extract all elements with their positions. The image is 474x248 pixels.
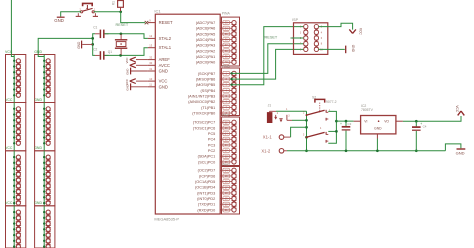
wire S1 to GND bbox=[61, 12, 81, 17]
capacitor C2 bbox=[93, 47, 108, 59]
supply arrow VCC at AVCC bbox=[130, 63, 148, 68]
connector JPV2 pins bbox=[16, 107, 21, 146]
switch S2 bracket and labels bbox=[312, 95, 337, 112]
svg-text:14: 14 bbox=[225, 168, 228, 172]
svg-text:VCC: VCC bbox=[358, 28, 362, 35]
svg-text:XTAL1: XTAL1 bbox=[159, 45, 172, 50]
wire regulator output to VCC bbox=[403, 116, 461, 123]
svg-text:/RESET: /RESET bbox=[264, 35, 278, 39]
connector X1-2 terminal bbox=[261, 149, 287, 154]
IC1 PINA pin names bbox=[196, 21, 216, 65]
svg-text:(ADC4)PA4: (ADC4)PA4 bbox=[196, 38, 216, 42]
svg-text:(AIN0/OC0)PB2: (AIN0/OC0)PB2 bbox=[188, 100, 215, 104]
wire crystal bottom to XTAL1 bbox=[105, 48, 148, 57]
svg-text:(T1)PB1: (T1)PB1 bbox=[201, 106, 215, 110]
connector JPG3 header body bbox=[35, 151, 55, 206]
svg-text:25: 25 bbox=[225, 137, 228, 141]
svg-text:27: 27 bbox=[225, 149, 228, 153]
ground symbol under S1 bbox=[54, 17, 64, 23]
svg-text:(MISO)PB6: (MISO)PB6 bbox=[196, 77, 215, 81]
supply arrow VCC at ISP bbox=[349, 28, 362, 35]
connector PINC header body bbox=[222, 113, 240, 165]
IC1 PINB pin names bbox=[188, 72, 215, 116]
wire JPG bus segment 3 bbox=[43, 151, 45, 206]
svg-text:XTAL2: XTAL2 bbox=[159, 36, 172, 41]
svg-text:GND: GND bbox=[159, 69, 168, 74]
svg-text:IC1: IC1 bbox=[154, 9, 161, 14]
connector JPV1 pins bbox=[16, 59, 21, 98]
svg-text:23: 23 bbox=[225, 126, 228, 130]
node /RESET net label and wire to ISP pin5 bbox=[264, 35, 304, 39]
svg-text:15: 15 bbox=[225, 174, 228, 178]
connector JPG2 pins bbox=[46, 107, 51, 146]
supply arrow VCC at IC1 pin 10 bbox=[125, 79, 148, 85]
svg-text:VCC: VCC bbox=[5, 201, 13, 205]
svg-text:(ADC7)PA7: (ADC7)PA7 bbox=[196, 21, 216, 25]
svg-text:GND: GND bbox=[54, 18, 64, 23]
wire capacitor ground link bbox=[91, 34, 95, 56]
wire J1 pin1 to switch input bus bbox=[276, 110, 307, 112]
wire JPV bus segment 2 bbox=[13, 103, 15, 151]
svg-text:GND: GND bbox=[34, 201, 42, 205]
svg-text:26: 26 bbox=[225, 143, 228, 147]
switch S2 pole A bbox=[303, 110, 331, 121]
connector JPV2 header body bbox=[6, 103, 26, 151]
svg-text:GND: GND bbox=[351, 45, 355, 53]
ground symbol at IC1 pin 31 bbox=[126, 68, 148, 75]
svg-text:(ADC2)PA2: (ADC2)PA2 bbox=[196, 49, 216, 53]
svg-text:S2: S2 bbox=[312, 95, 316, 99]
connector PIND header body bbox=[222, 163, 240, 214]
svg-text:PINC: PINC bbox=[222, 113, 231, 117]
svg-text:(ADC0)PA0: (ADC0)PA0 bbox=[196, 61, 216, 65]
svg-text:35: 35 bbox=[225, 32, 228, 36]
svg-text:GND: GND bbox=[77, 41, 81, 49]
wire SCK PB7 to ISP pin7 bbox=[230, 44, 303, 75]
IC1 PIND pin names bbox=[195, 169, 215, 213]
connector JPG3 pins bbox=[46, 155, 51, 205]
ground symbol at ISP bbox=[346, 45, 355, 53]
connector ISP pins bbox=[300, 24, 323, 51]
svg-text:22: 22 bbox=[225, 120, 228, 124]
supply arrow VCC at AREF bbox=[125, 57, 148, 63]
svg-text:VI: VI bbox=[364, 120, 367, 124]
svg-text:(AIN1/INT2)PB3: (AIN1/INT2)PB3 bbox=[188, 94, 215, 98]
wire S2 throws common loop bbox=[328, 111, 337, 143]
svg-text:VO: VO bbox=[384, 120, 389, 124]
connector JPV4 header body bbox=[6, 206, 26, 248]
svg-text:17: 17 bbox=[225, 185, 228, 189]
svg-text:(TOSC1)PC6: (TOSC1)PC6 bbox=[193, 126, 216, 130]
svg-text:PINA: PINA bbox=[222, 12, 231, 16]
wire ISP pin10 to GND bbox=[319, 48, 345, 50]
svg-text:MEGA8535-P: MEGA8535-P bbox=[154, 216, 179, 221]
svg-text:+: + bbox=[340, 122, 342, 126]
wire ISP pin2 to VCC bbox=[319, 23, 353, 29]
wire ground rail bbox=[287, 149, 445, 152]
svg-text:RESET: RESET bbox=[159, 20, 173, 25]
svg-text:C3: C3 bbox=[348, 122, 352, 126]
capacitor C3 electrolytic bbox=[340, 120, 352, 151]
svg-text:7805TV: 7805TV bbox=[361, 108, 374, 112]
svg-text:C4: C4 bbox=[423, 124, 427, 128]
wire JPV bus segment 4 bbox=[13, 206, 15, 248]
svg-text:R1: R1 bbox=[112, 1, 116, 5]
svg-text:(TOSC2)PC7: (TOSC2)PC7 bbox=[193, 121, 216, 125]
svg-text:(SS)PB4: (SS)PB4 bbox=[201, 89, 216, 93]
svg-text:(ADC6)PA6: (ADC6)PA6 bbox=[196, 27, 216, 31]
wire IC2 ground pin to rail bbox=[376, 139, 378, 151]
capacitor C1 bbox=[93, 25, 108, 38]
svg-text:VCC: VCC bbox=[125, 79, 129, 85]
svg-text:(SCK)PB7: (SCK)PB7 bbox=[198, 72, 216, 76]
svg-text:33: 33 bbox=[225, 21, 228, 25]
switch S2 pole B bbox=[303, 128, 328, 143]
svg-text:(INT0)PD2: (INT0)PD2 bbox=[197, 197, 215, 201]
switch S1 actuator bbox=[83, 3, 93, 9]
connector PINB header body bbox=[222, 64, 240, 115]
svg-text:GND: GND bbox=[159, 84, 168, 89]
resistor R1 bbox=[112, 1, 124, 12]
wire crystal top to XTAL2 bbox=[105, 32, 148, 38]
svg-text:28: 28 bbox=[225, 154, 228, 158]
svg-text:GND: GND bbox=[34, 98, 42, 102]
svg-text:(SCL)PC0: (SCL)PC0 bbox=[198, 160, 215, 164]
connector JPV3 pins bbox=[16, 155, 21, 205]
junction X at RESET pin bbox=[145, 21, 149, 24]
wire JPG bus segment 4 bbox=[43, 206, 45, 248]
connector J1 DC jack bbox=[267, 104, 292, 123]
connector PINA header body bbox=[222, 12, 240, 67]
svg-text:GND: GND bbox=[126, 69, 130, 75]
svg-text:J1: J1 bbox=[268, 104, 272, 108]
svg-text:16: 16 bbox=[225, 180, 228, 184]
svg-text:37: 37 bbox=[225, 43, 228, 47]
svg-text:GND: GND bbox=[374, 127, 382, 131]
switch S1 lower terminals bbox=[76, 13, 98, 16]
svg-text:19: 19 bbox=[225, 197, 228, 201]
IC1 left pin stubs and names bbox=[148, 18, 173, 89]
connector JPG2 header body bbox=[35, 103, 55, 151]
svg-text:(ICP)PD6: (ICP)PD6 bbox=[199, 174, 215, 178]
IC1 PINC pin names bbox=[193, 121, 216, 165]
svg-text:PIND: PIND bbox=[222, 163, 231, 167]
wire switch input bus vertical bbox=[305, 111, 308, 152]
svg-text:(INT1)PD3: (INT1)PD3 bbox=[197, 191, 215, 195]
svg-text:RESET: RESET bbox=[116, 23, 129, 27]
svg-text:36: 36 bbox=[225, 38, 228, 42]
svg-text:9077-2: 9077-2 bbox=[326, 100, 337, 104]
connector ISP header body bbox=[292, 18, 328, 54]
svg-text:VCC: VCC bbox=[455, 105, 459, 112]
svg-text:18: 18 bbox=[225, 191, 228, 195]
svg-text:20: 20 bbox=[225, 202, 228, 206]
connector PIND pins bbox=[220, 168, 236, 212]
ground symbol at IC1 pin 11 bbox=[126, 83, 148, 90]
wire JPV bus segment 3 bbox=[13, 151, 15, 206]
svg-text:VCC: VCC bbox=[125, 57, 129, 63]
svg-text:AVCC: AVCC bbox=[159, 63, 170, 68]
crystal Q1 bbox=[108, 34, 128, 55]
svg-text:PC5: PC5 bbox=[208, 132, 215, 136]
connector JPG1 pins bbox=[46, 59, 51, 98]
svg-text:GND: GND bbox=[126, 84, 130, 90]
supply arrow VCC at regulator output bbox=[455, 105, 464, 115]
svg-text:X1-2: X1-2 bbox=[261, 149, 271, 154]
wire JPG bus segment 2 bbox=[43, 103, 45, 151]
connector PINC pins bbox=[220, 120, 236, 164]
svg-text:(TXD)PD1: (TXD)PD1 bbox=[198, 203, 216, 207]
svg-text:C1: C1 bbox=[93, 25, 97, 29]
svg-text:Q1: Q1 bbox=[108, 50, 112, 54]
svg-text:34: 34 bbox=[225, 26, 228, 30]
svg-text:C2: C2 bbox=[93, 47, 97, 51]
connector PINA pins bbox=[220, 20, 236, 64]
svg-text:39: 39 bbox=[225, 55, 228, 59]
svg-text:(ADC3)PA3: (ADC3)PA3 bbox=[196, 44, 216, 48]
connector JPG4 pins bbox=[46, 210, 51, 248]
svg-text:AREF: AREF bbox=[159, 57, 171, 62]
svg-text:(SDA)PC1: (SDA)PC1 bbox=[198, 155, 216, 159]
svg-text:VCC: VCC bbox=[5, 98, 13, 102]
svg-text:(ADC5)PA5: (ADC5)PA5 bbox=[196, 32, 216, 36]
switch S1 contacts and lever bbox=[80, 8, 97, 13]
connector PINB pins bbox=[220, 71, 236, 115]
connector JPG1 header body bbox=[35, 55, 55, 103]
svg-text:24: 24 bbox=[225, 132, 228, 136]
svg-text:21: 21 bbox=[225, 208, 228, 212]
wire JPG bus segment 1 bbox=[43, 55, 45, 103]
wire rail to GND symbol bbox=[445, 144, 461, 151]
svg-text:(MOSI)PB5: (MOSI)PB5 bbox=[196, 83, 215, 87]
voltage regulator IC2 7805TV bbox=[354, 104, 403, 138]
connector JPG4 header body bbox=[35, 206, 55, 248]
op-amp IC1 body (MEGA8535-P) bbox=[154, 9, 220, 222]
connector JPV1 header body bbox=[6, 55, 26, 103]
wire J1 pin3 to switch input bus bbox=[292, 119, 307, 121]
svg-text:PC3: PC3 bbox=[208, 143, 215, 147]
svg-text:PINB: PINB bbox=[222, 64, 231, 68]
wire JPV bus segment 1 bbox=[13, 55, 15, 103]
wire S2 output to regulator input bbox=[336, 120, 353, 122]
wire GND bus to crystal ground bbox=[38, 38, 92, 56]
svg-text:PC4: PC4 bbox=[208, 138, 215, 142]
wire MOSI PB5 to ISP pin1 bbox=[230, 27, 303, 86]
svg-text:X1-1: X1-1 bbox=[263, 135, 273, 140]
connector X1-1 terminal bbox=[263, 135, 291, 140]
svg-text:ISP: ISP bbox=[292, 18, 298, 22]
wire MISO PB6 to ISP pin9 bbox=[230, 49, 303, 80]
connector JPV3 header body bbox=[6, 151, 26, 206]
wire S1 to R1 / RESET net bbox=[94, 10, 122, 13]
svg-text:PC2: PC2 bbox=[208, 149, 215, 153]
wire X1-1 to switch bus bbox=[291, 127, 307, 137]
connector JPV4 pins bbox=[16, 210, 21, 248]
svg-text:(OC1B)PD4: (OC1B)PD4 bbox=[195, 186, 215, 190]
svg-text:VCC: VCC bbox=[5, 146, 13, 150]
svg-text:(T0/XCK)PB0: (T0/XCK)PB0 bbox=[192, 111, 215, 115]
svg-text:VCC: VCC bbox=[159, 79, 168, 84]
capacitor C4 electrolytic bbox=[412, 121, 427, 152]
svg-text:(RXD)PD0: (RXD)PD0 bbox=[197, 208, 215, 212]
wire RESET net to IC1 bbox=[121, 12, 145, 23]
svg-text:38: 38 bbox=[225, 49, 228, 53]
ground symbol at power rail bbox=[456, 149, 466, 155]
svg-text:GND: GND bbox=[34, 146, 42, 150]
svg-text:GND: GND bbox=[456, 150, 465, 155]
ground symbol at crystal bbox=[77, 41, 93, 49]
svg-text:(ADC1)PA1: (ADC1)PA1 bbox=[196, 55, 216, 59]
svg-text:(OC1A)PD5: (OC1A)PD5 bbox=[195, 180, 215, 184]
svg-text:(OC2)PD7: (OC2)PD7 bbox=[198, 169, 216, 173]
wire VCC bus to top edge bbox=[11, 0, 14, 57]
